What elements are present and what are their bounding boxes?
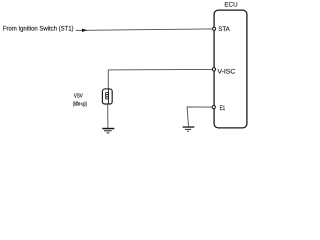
svg-text:(Idle-up): (Idle-up) [73,100,87,107]
wire: ignition switch to STA [76,29,213,31]
wire: VSV to ground [107,104,109,128]
VSV box [102,89,112,104]
wire: VSV to V-ISC [108,69,212,89]
svg-text:VSV: VSV [74,92,83,99]
arrowhead on ignition wire [82,29,88,33]
svg-text:STA: STA [218,26,230,33]
VSV coil [105,90,108,104]
wire: E1 to ground [187,107,212,126]
terminal V-ISC circle [212,68,215,71]
ground (E1) [183,126,195,131]
svg-text:From Ignition Switch (ST1): From Ignition Switch (ST1) [3,26,74,33]
ECU box [214,10,247,128]
svg-text:V-ISC: V-ISC [217,69,235,76]
ground (VSV) [102,128,114,134]
terminal STA circle [213,27,216,30]
svg-text:E1: E1 [220,105,226,112]
terminal E1 circle [212,106,215,109]
svg-text:ECU: ECU [224,2,237,9]
